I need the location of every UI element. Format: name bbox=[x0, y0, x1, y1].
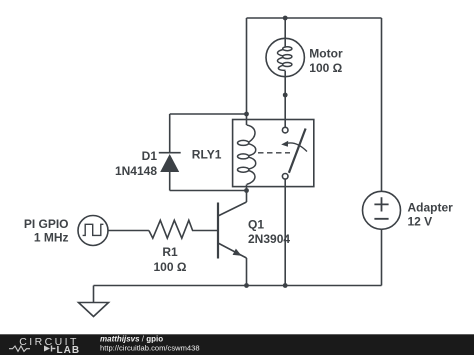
svg-text:PI GPIO: PI GPIO bbox=[24, 217, 69, 231]
svg-text:100 Ω: 100 Ω bbox=[309, 61, 342, 75]
svg-text:1N4148: 1N4148 bbox=[115, 164, 157, 178]
svg-text:Adapter: Adapter bbox=[408, 201, 454, 215]
svg-text:http://circuitlab.com/cswm438: http://circuitlab.com/cswm438 bbox=[100, 344, 200, 353]
svg-text:2N3904: 2N3904 bbox=[248, 232, 290, 246]
svg-text:R1: R1 bbox=[162, 245, 178, 259]
svg-text:Motor: Motor bbox=[309, 47, 343, 61]
svg-text:D1: D1 bbox=[142, 149, 158, 163]
svg-text:matthijsvs / gpio: matthijsvs / gpio bbox=[100, 335, 163, 344]
svg-text:Q1: Q1 bbox=[248, 217, 264, 231]
svg-text:LAB: LAB bbox=[57, 345, 81, 355]
svg-text:RLY1: RLY1 bbox=[192, 148, 222, 162]
svg-text:12 V: 12 V bbox=[408, 214, 433, 228]
svg-text:1 MHz: 1 MHz bbox=[34, 231, 69, 245]
svg-text:100 Ω: 100 Ω bbox=[154, 260, 187, 274]
